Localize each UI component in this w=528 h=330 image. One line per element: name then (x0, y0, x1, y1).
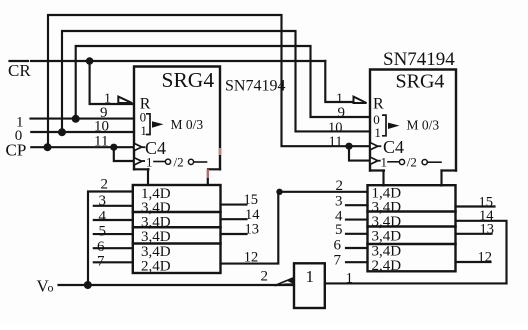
svg-text:o: o (48, 281, 54, 295)
svg-text:2: 2 (101, 176, 109, 192)
svg-text:SRG4: SRG4 (162, 68, 215, 92)
svg-text:5: 5 (335, 222, 343, 238)
svg-text:1: 1 (374, 125, 381, 140)
svg-text:SN74194: SN74194 (383, 49, 455, 70)
svg-text:12: 12 (244, 249, 258, 265)
svg-text:R: R (373, 96, 384, 113)
svg-text:SN74194: SN74194 (225, 78, 285, 95)
svg-text:1: 1 (381, 155, 388, 170)
svg-text:/2: /2 (407, 155, 417, 170)
svg-text:3,4D: 3,4D (141, 229, 171, 245)
svg-text:M 0/3: M 0/3 (407, 118, 440, 133)
svg-text:2,4D: 2,4D (372, 258, 402, 274)
svg-text:3: 3 (335, 193, 343, 209)
svg-text:M 0/3: M 0/3 (171, 117, 204, 132)
svg-text:13: 13 (480, 222, 495, 238)
svg-text:5: 5 (99, 224, 107, 240)
svg-text:1: 1 (146, 154, 153, 169)
svg-text:1: 1 (104, 91, 111, 106)
svg-text:SRG4: SRG4 (396, 71, 445, 93)
svg-text:3: 3 (99, 193, 107, 209)
svg-text:2: 2 (336, 178, 344, 194)
svg-text:2,4D: 2,4D (141, 259, 171, 275)
svg-text:7: 7 (334, 253, 342, 269)
svg-text:3,4D: 3,4D (141, 214, 171, 230)
svg-text:14: 14 (245, 207, 260, 223)
svg-text:15: 15 (244, 192, 259, 208)
svg-text:CR: CR (8, 61, 31, 80)
svg-text:1: 1 (346, 270, 354, 286)
svg-text:2: 2 (261, 269, 269, 285)
svg-text:4: 4 (99, 208, 107, 224)
svg-text:1: 1 (306, 267, 315, 286)
svg-text:CP: CP (6, 141, 27, 160)
svg-text:9: 9 (338, 105, 346, 121)
svg-text:11: 11 (329, 134, 343, 150)
svg-text:/2: /2 (174, 155, 184, 170)
svg-text:7: 7 (97, 254, 105, 270)
svg-text:3,4D: 3,4D (372, 229, 402, 245)
svg-text:6: 6 (334, 237, 342, 253)
svg-text:12: 12 (478, 250, 493, 266)
svg-text:11: 11 (94, 133, 108, 149)
svg-text:10: 10 (94, 119, 109, 135)
svg-text:13: 13 (245, 222, 260, 238)
svg-text:1: 1 (140, 123, 147, 138)
